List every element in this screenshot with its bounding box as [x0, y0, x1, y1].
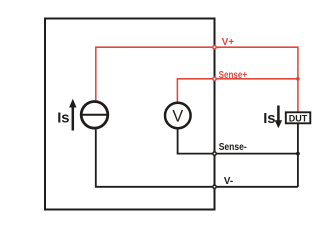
svg-text:V-: V- — [224, 176, 233, 187]
svg-text:V: V — [172, 108, 183, 126]
svg-text:V+: V+ — [222, 37, 235, 48]
label Is (through DUT) — [263, 111, 275, 127]
svg-text:Is: Is — [57, 110, 69, 126]
terminal Sense+ (red open circle on enclosure edge) — [213, 77, 216, 80]
wire: red Sense+ from voltmeter top up and right to force line — [177, 79, 298, 102]
DUT box — [286, 112, 311, 123]
label Sense+ — [219, 70, 248, 81]
label Is (current source) — [57, 110, 69, 126]
terminal V- (black open circle on enclosure edge) — [213, 185, 216, 188]
voltmeter V — [165, 103, 191, 129]
instrument enclosure box — [45, 19, 215, 210]
wire: black Sense- from voltmeter bottom down and right to DUT line — [178, 129, 298, 154]
wire: black V- from current source bottom down and right to DUT branch — [96, 130, 298, 187]
label V+ — [222, 37, 235, 48]
junction dot Sense- / force- — [296, 152, 300, 156]
svg-text:Sense-: Sense- — [219, 142, 247, 153]
terminal V+ (red open circle on enclosure edge) — [213, 46, 216, 49]
junction dot Sense+ / force+ — [296, 77, 300, 81]
label V- — [224, 176, 233, 187]
svg-text:Sense+: Sense+ — [219, 70, 248, 81]
current source IS (circle with bar) — [81, 102, 108, 129]
svg-text:DUT: DUT — [289, 113, 308, 123]
svg-text:Is: Is — [263, 111, 275, 127]
wire: red V+ from current source top up and right to DUT — [96, 47, 298, 112]
terminal Sense- (black open circle on enclosure edge) — [213, 152, 216, 155]
arrow: Is direction up — [69, 99, 76, 131]
wire: black from DUT bottom down through Sense- junction to V- corner — [297, 124, 299, 187]
arrow: Is direction down through DUT — [275, 106, 282, 129]
label Sense- — [219, 142, 247, 153]
